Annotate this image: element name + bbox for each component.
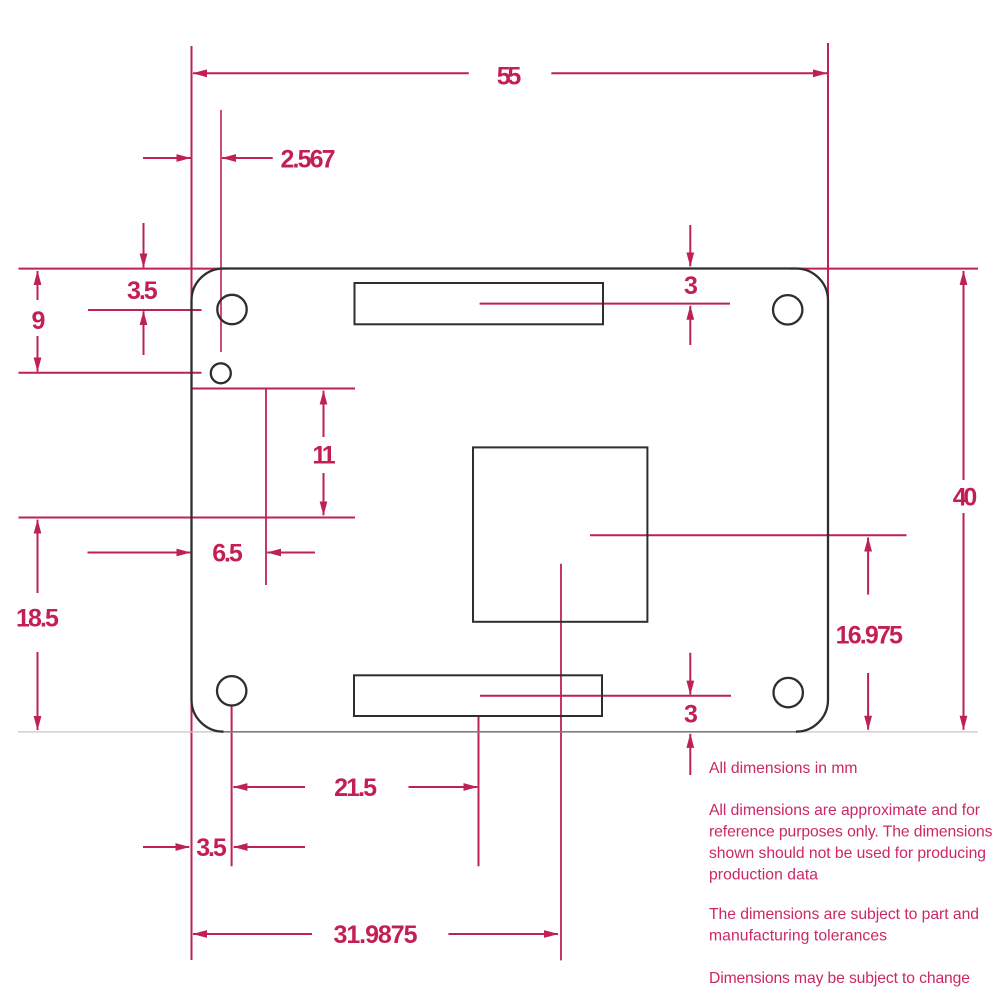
svg-text:3.5: 3.5 (196, 834, 227, 862)
svg-text:16.975: 16.975 (836, 622, 903, 650)
svg-text:shown should not be used for p: shown should not be used for producing (709, 845, 986, 862)
svg-text:All dimensions are approximate: All dimensions are approximate and for (709, 802, 980, 819)
svg-text:manufacturing tolerances: manufacturing tolerances (709, 928, 887, 945)
svg-text:production data: production data (709, 867, 818, 884)
svg-text:9: 9 (32, 307, 46, 335)
svg-text:The dimensions are subject to: The dimensions are subject to part and (709, 906, 979, 923)
svg-text:31.9875: 31.9875 (334, 921, 418, 949)
svg-text:18.5: 18.5 (16, 605, 59, 633)
svg-text:2.567: 2.567 (281, 146, 336, 174)
svg-text:3: 3 (684, 701, 698, 729)
svg-text:55: 55 (497, 63, 522, 91)
svg-text:Dimensions may be subject to c: Dimensions may be subject to change (709, 970, 970, 987)
svg-text:40: 40 (953, 484, 978, 512)
svg-text:3.5: 3.5 (127, 277, 158, 305)
svg-text:6.5: 6.5 (212, 540, 243, 568)
svg-text:3: 3 (684, 272, 698, 300)
svg-text:21.5: 21.5 (334, 774, 377, 802)
svg-text:11: 11 (312, 442, 335, 470)
svg-text:All dimensions in mm: All dimensions in mm (709, 760, 858, 777)
svg-text:reference purposes only. The d: reference purposes only. The dimensions (709, 824, 993, 841)
